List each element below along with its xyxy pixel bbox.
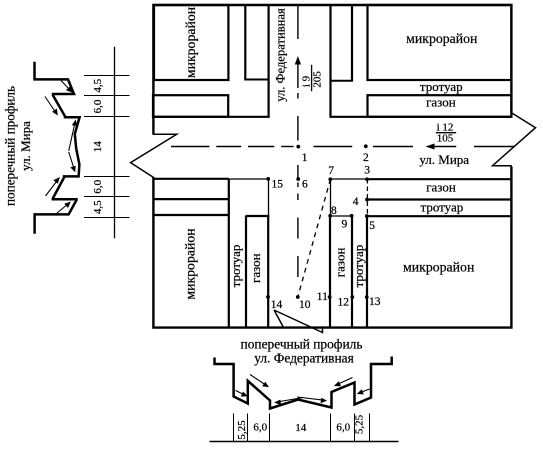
svg-text:13: 13 (369, 296, 381, 308)
svg-text:6,0: 6,0 (253, 422, 267, 434)
svg-text:6,0: 6,0 (336, 422, 350, 434)
svg-text:7: 7 (328, 165, 334, 177)
NW microdistrict block (154, 5, 228, 80)
street west edge thick (south) (267, 215, 269, 328)
svg-text:14: 14 (295, 422, 307, 434)
street west edge (north) (268, 5, 270, 118)
gradient arrow up on centerline (295, 56, 301, 65)
horizontal centerline dashes (ul. Mira) (171, 146, 514, 148)
svg-text:тротуар: тротуар (420, 79, 463, 94)
bottom dimension labels (236, 414, 365, 439)
svg-text:4,5: 4,5 (92, 200, 104, 214)
svg-text:6,0: 6,0 (92, 99, 104, 113)
svg-text:2: 2 (363, 152, 369, 164)
svg-text:9: 9 (342, 219, 348, 231)
gradient fraction i9/205 (vertical) (300, 65, 323, 91)
vertical centerline dashes (297, 6, 299, 277)
road south edge east thick (367, 178, 511, 180)
leader arrow to bottom profile (274, 310, 323, 333)
gradient fraction i12/105 (436, 121, 456, 144)
road south edge west thick (153, 178, 229, 180)
left profile slope arrows (45, 81, 77, 214)
svg-text:тротуар: тротуар (351, 245, 366, 288)
svg-text:6: 6 (302, 178, 308, 190)
left dimension ticks (84, 76, 130, 218)
NE microdistrict block (368, 5, 512, 80)
bottom profile slope arrows (236, 375, 370, 406)
crosswalk edge west thin (to pt15) (229, 178, 268, 180)
SW lawn strip cap (246, 215, 270, 217)
svg-text:газон: газон (426, 95, 456, 110)
svg-text:ул. Федеративная: ул. Федеративная (254, 350, 354, 365)
svg-text:газон: газон (333, 248, 348, 278)
svg-text:тротуар: тротуар (421, 199, 464, 214)
left dimension line (114, 47, 116, 238)
svg-text:4,5: 4,5 (92, 78, 104, 92)
left border break symbol (131, 134, 177, 177)
crosswalk dashed pt3-pt4-pt5 (366, 179, 368, 216)
svg-text:поперечный профиль: поперечный профиль (3, 86, 18, 206)
left dimension labels (92, 78, 104, 214)
NW lawn strip cap (244, 79, 269, 81)
svg-text:4: 4 (353, 196, 359, 208)
survey point numbers (271, 152, 381, 311)
svg-text:14: 14 (271, 299, 283, 311)
plan outer border with break notches (153, 5, 511, 328)
svg-text:3: 3 (364, 164, 370, 176)
crosswalk line pt8-pt9 thin (331, 215, 352, 217)
svg-text:5,25: 5,25 (353, 414, 365, 434)
street east edge (south) (329, 217, 331, 328)
svg-text:205: 205 (312, 71, 324, 88)
svg-text:микрорайон: микрорайон (406, 31, 478, 46)
gradient arrow left on Mira centerline (426, 144, 435, 150)
right border break symbol (493, 112, 536, 166)
svg-text:5,25: 5,25 (236, 420, 248, 440)
road north edge east part (330, 116, 512, 118)
svg-text:8: 8 (331, 205, 337, 217)
SW sidewalk strip west edge (228, 179, 230, 328)
svg-text:11: 11 (317, 291, 328, 303)
svg-text:14: 14 (92, 141, 104, 153)
svg-text:ул. Мира: ул. Мира (18, 121, 33, 171)
svg-text:12: 12 (338, 297, 350, 309)
NW sidewalk strip line (244, 5, 246, 80)
SE microdistrict top (367, 215, 511, 217)
street east edge (north) (329, 5, 331, 117)
street west edge thin (pt15 to cap) (268, 179, 270, 216)
bottom dimension baseline (210, 441, 399, 443)
svg-text:5: 5 (369, 220, 375, 232)
svg-text:ул. Федеративная: ул. Федеративная (274, 8, 288, 102)
survey point dots (266, 144, 369, 298)
left profile surface polyline (35, 62, 80, 234)
svg-text:тротуар: тротуар (228, 245, 243, 288)
SW microdistrict top (153, 214, 228, 216)
svg-text:газон: газон (426, 179, 456, 194)
crosswalk line pt7-pt8 thin (330, 179, 332, 216)
svg-text:6,0: 6,0 (92, 179, 104, 193)
svg-text:ул. Мира: ул. Мира (419, 152, 469, 167)
svg-text:микрорайон: микрорайон (183, 6, 198, 78)
svg-text:1: 1 (302, 152, 308, 164)
svg-text:микрорайон: микрорайон (403, 260, 475, 275)
NE lawn strip cap (330, 80, 354, 82)
SW lawn strip west edge (245, 216, 247, 328)
bottom profile surface polyline (215, 357, 392, 409)
SE lawn bottom line (367, 198, 511, 200)
svg-text:i 12: i 12 (437, 121, 454, 133)
svg-text:газон: газон (248, 253, 263, 283)
NW lawn box (153, 95, 228, 117)
road north edge west part (153, 116, 270, 118)
crosswalk edge east thin (pt7 to pt3) (331, 178, 368, 180)
svg-text:15: 15 (272, 178, 284, 190)
SW lawn strip box lines (153, 198, 229, 200)
svg-text:105: 105 (437, 133, 454, 145)
svg-text:i 9: i 9 (300, 75, 312, 87)
SE lawn strip east edge (351, 217, 353, 328)
bottom dimension ticks (234, 414, 370, 442)
SE sidewalk strip east edge (366, 216, 368, 327)
svg-text:10: 10 (299, 299, 311, 311)
crosswalk dashed diagonal pt7-pt10 (298, 179, 331, 297)
NE lawn strip line (351, 5, 353, 81)
svg-text:микрорайон: микрорайон (183, 228, 198, 300)
NE lawn box (368, 95, 512, 117)
